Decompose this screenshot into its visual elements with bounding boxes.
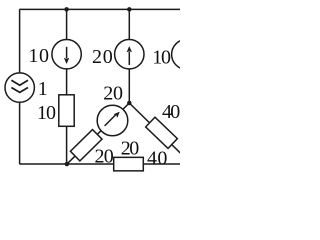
current source I3 circle <box>115 40 144 69</box>
current source I1 (double-chevron, left) <box>5 73 34 102</box>
wire diagonal branch lower-left <box>67 103 129 164</box>
svg-text:20: 20 <box>103 83 123 105</box>
resistor R2 20 (diagonal lower-left) <box>70 130 102 161</box>
chevrons of I1 <box>11 80 28 92</box>
wire branch3 vertical <box>128 9 130 103</box>
arrow I2 (down) <box>64 47 69 64</box>
svg-text:40: 40 <box>162 101 180 123</box>
wire diagonal branch lower-right <box>129 103 181 154</box>
junction node top branch2 <box>64 7 69 12</box>
wire branch2 vertical <box>66 9 68 164</box>
arrow I5 (northeast) <box>105 112 120 126</box>
svg-text:20: 20 <box>121 137 140 159</box>
svg-text:40: 40 <box>147 148 167 170</box>
resistor R1 10 (vertical, branch2) <box>59 95 74 127</box>
arrow I3 (up) <box>127 47 132 65</box>
resistor R3 40 (diagonal lower-right) <box>146 117 178 148</box>
svg-text:10: 10 <box>152 47 171 69</box>
junction node top branch3 <box>127 7 132 12</box>
wire left branch lower <box>19 102 21 164</box>
current source I4 circle (cropped at right edge) <box>172 39 202 69</box>
svg-text:20: 20 <box>92 46 113 68</box>
wire bottom rail <box>19 163 180 165</box>
svg-text:1: 1 <box>38 78 48 100</box>
svg-text:10: 10 <box>28 45 49 67</box>
wire left branch upper <box>19 9 21 73</box>
current source I5 (diagonal, with 45-degree arrow) <box>97 105 128 136</box>
junction node N (mid right) <box>127 101 132 106</box>
resistor R4 20 (horizontal, bottom rail) <box>114 157 144 171</box>
svg-text:10: 10 <box>37 102 56 124</box>
current source I2 circle <box>52 40 81 69</box>
svg-text:20: 20 <box>95 145 114 167</box>
wire top rail <box>19 8 180 10</box>
junction node bottom branch2 <box>65 162 70 167</box>
